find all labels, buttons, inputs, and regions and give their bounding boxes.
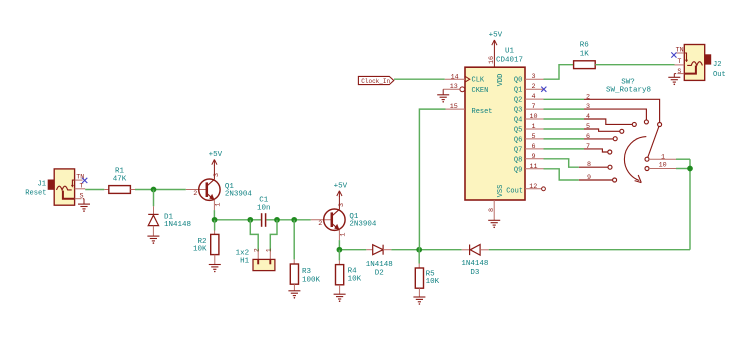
svg-text:14: 14 (451, 73, 459, 81)
svg-text:10K: 10K (193, 246, 207, 254)
svg-text:U1: U1 (505, 48, 515, 56)
svg-text:47K: 47K (113, 175, 127, 183)
svg-text:D2: D2 (375, 269, 384, 277)
svg-text:1N4148: 1N4148 (461, 260, 488, 268)
svg-text:6: 6 (586, 133, 590, 141)
svg-text:2: 2 (193, 190, 197, 198)
svg-text:S: S (80, 193, 84, 201)
svg-text:T: T (80, 182, 84, 190)
svg-text:J1: J1 (37, 180, 46, 188)
svg-text:3: 3 (531, 73, 535, 81)
svg-text:2N3904: 2N3904 (225, 190, 253, 198)
svg-text:6: 6 (531, 143, 535, 151)
svg-text:Reset: Reset (472, 108, 493, 116)
svg-text:R4: R4 (348, 268, 358, 276)
svg-text:10K: 10K (426, 278, 440, 286)
svg-text:16: 16 (488, 56, 496, 64)
svg-text:S: S (677, 68, 681, 76)
svg-text:CLK: CLK (472, 77, 485, 85)
svg-text:Out: Out (713, 71, 726, 79)
svg-text:10K: 10K (348, 276, 362, 284)
svg-text:11: 11 (529, 163, 537, 171)
svg-text:+5V: +5V (334, 182, 348, 190)
svg-text:Q2: Q2 (514, 97, 522, 105)
svg-text:1: 1 (266, 248, 274, 252)
svg-text:10n: 10n (257, 204, 271, 212)
svg-text:2: 2 (531, 83, 535, 91)
svg-text:1x2: 1x2 (236, 249, 250, 257)
svg-text:8: 8 (587, 161, 591, 169)
svg-text:Q7: Q7 (514, 146, 522, 154)
svg-text:100K: 100K (302, 277, 321, 285)
svg-text:2: 2 (254, 248, 262, 252)
svg-text:9: 9 (531, 153, 535, 161)
svg-text:R6: R6 (580, 42, 590, 50)
svg-text:CKEN: CKEN (472, 87, 489, 95)
svg-text:Q6: Q6 (514, 136, 522, 144)
svg-text:10: 10 (659, 162, 667, 170)
svg-text:TN: TN (676, 47, 684, 55)
svg-text:Q8: Q8 (514, 156, 522, 164)
svg-text:CD4017: CD4017 (496, 56, 523, 64)
svg-text:7: 7 (586, 143, 590, 151)
svg-text:Cout: Cout (506, 188, 523, 196)
svg-text:+5V: +5V (489, 32, 503, 40)
svg-text:4: 4 (586, 113, 590, 121)
svg-text:5: 5 (531, 133, 535, 141)
svg-text:9: 9 (587, 174, 591, 182)
svg-text:1: 1 (661, 153, 665, 161)
svg-text:1: 1 (531, 123, 535, 131)
svg-text:2: 2 (586, 93, 590, 101)
svg-text:13: 13 (450, 83, 458, 91)
svg-text:1N4148: 1N4148 (366, 261, 393, 269)
svg-text:1: 1 (340, 233, 348, 237)
svg-text:D3: D3 (470, 269, 480, 277)
svg-text:5: 5 (586, 123, 590, 131)
svg-text:15: 15 (450, 103, 458, 111)
svg-text:+5V: +5V (209, 151, 223, 159)
svg-text:Q4: Q4 (514, 117, 522, 125)
svg-text:Clock_In: Clock_In (361, 78, 390, 85)
svg-text:2: 2 (318, 220, 322, 228)
svg-text:10: 10 (529, 113, 537, 121)
svg-text:R3: R3 (302, 268, 312, 276)
svg-text:T: T (677, 58, 681, 66)
svg-text:Q0: Q0 (514, 77, 522, 85)
svg-text:1: 1 (215, 203, 223, 207)
svg-text:1N4148: 1N4148 (164, 221, 191, 229)
svg-text:Q1: Q1 (514, 87, 522, 95)
svg-text:2N3904: 2N3904 (349, 221, 377, 229)
svg-text:H1: H1 (240, 257, 250, 265)
svg-text:VDD: VDD (497, 74, 505, 87)
svg-text:Q3: Q3 (514, 107, 522, 115)
svg-text:VSS: VSS (497, 185, 505, 198)
svg-text:R1: R1 (115, 168, 125, 176)
svg-text:SW_Rotary8: SW_Rotary8 (606, 87, 651, 95)
svg-text:3: 3 (586, 103, 590, 111)
svg-text:3: 3 (338, 203, 346, 207)
svg-text:8: 8 (488, 208, 496, 212)
svg-text:3: 3 (213, 173, 221, 177)
svg-text:Q5: Q5 (514, 127, 522, 135)
svg-text:TN: TN (76, 174, 84, 182)
svg-text:4: 4 (531, 93, 535, 101)
svg-text:7: 7 (531, 103, 535, 111)
svg-text:12: 12 (529, 183, 537, 191)
svg-text:J2: J2 (713, 61, 722, 69)
svg-text:Q9: Q9 (514, 166, 522, 174)
svg-text:Reset: Reset (25, 189, 46, 197)
svg-text:1K: 1K (580, 51, 590, 59)
svg-text:SW?: SW? (621, 79, 635, 87)
